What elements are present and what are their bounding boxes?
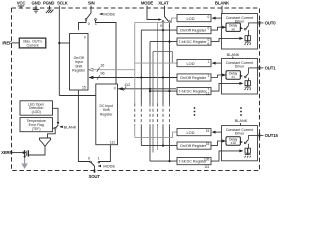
switch XLAT latch select <box>165 17 169 21</box>
block constant current driver 0 <box>222 14 258 50</box>
switch driver 15 output <box>244 142 246 144</box>
junction SCLK tap <box>58 42 60 44</box>
block LOD 0 <box>177 15 211 22</box>
svg-text:BLANK: BLANK <box>64 124 77 129</box>
svg-text:Driver: Driver <box>235 65 245 69</box>
ellipsis channels 2-14 left <box>194 107 196 116</box>
svg-text:1: 1 <box>98 157 100 161</box>
svg-text:16: 16 <box>100 64 104 68</box>
svg-text:Driver: Driver <box>235 132 245 136</box>
wire DC 15 to current sink <box>211 151 242 161</box>
wire DC 0 to current sink <box>211 38 242 41</box>
svg-text:0: 0 <box>208 27 210 31</box>
wire DC 1 to current sink <box>211 83 242 91</box>
wire delay 1 output <box>239 75 242 77</box>
transistor XERR open drain NMOS <box>27 150 29 156</box>
ground gray arrow under XERR transistor <box>24 158 26 165</box>
block constant current driver 15 <box>222 126 258 161</box>
switch SOUT select <box>90 161 92 163</box>
register On/Off 15 <box>177 142 211 149</box>
svg-text:x15: x15 <box>231 141 236 145</box>
svg-text:15: 15 <box>206 129 210 133</box>
svg-text:LOD: LOD <box>187 130 195 135</box>
wire XLAT vertical <box>164 6 166 17</box>
svg-text:On/Off Register: On/Off Register <box>180 28 207 32</box>
wire delay 15 output <box>239 141 242 143</box>
svg-text:96: 96 <box>100 72 104 76</box>
svg-text:105: 105 <box>204 158 210 162</box>
wire funnel output to XERR transistor gate <box>28 147 45 156</box>
svg-text:(LOD): (LOD) <box>32 110 41 114</box>
bus LOD status 16 into shift register (gray) <box>90 69 135 71</box>
switch driver 1 output <box>244 76 246 78</box>
block temperature error flag <box>20 118 53 132</box>
bus On/Off data 96 out of shift register / On/Off register 1 tap <box>89 77 177 79</box>
wire XERR <box>12 152 25 154</box>
wire MODE to latch select switch <box>147 6 159 20</box>
block LOD 1 <box>177 60 211 67</box>
svg-text:x1: x1 <box>232 75 236 79</box>
wire SCLK tap to On/Off input shift register clock <box>59 42 69 44</box>
wire On/Off 15 to delay <box>211 141 225 146</box>
wire On/Off register 15 latch+data tap <box>141 145 177 147</box>
svg-text:(TEF): (TEF) <box>32 127 41 131</box>
bus vertical auxiliary A with top corner <box>153 52 172 153</box>
svg-text:0: 0 <box>114 86 116 90</box>
svg-text:0: 0 <box>88 156 90 160</box>
switch driver 0 output <box>244 28 246 30</box>
wire BLANK to driver 0 <box>221 6 223 14</box>
register On/Off 1 <box>177 74 211 81</box>
wire switch to OR funnel <box>48 129 56 138</box>
svg-text:112: 112 <box>124 83 130 87</box>
bus vertical On/Off data <box>140 30 142 146</box>
svg-text:7-bit DC Register: 7-bit DC Register <box>178 40 207 44</box>
svg-text:111: 111 <box>204 165 209 169</box>
wire LOD block output <box>53 108 59 123</box>
wire On/Off 0 to delay <box>211 27 225 30</box>
svg-text:SOUT: SOUT <box>89 174 101 179</box>
block delay x1 <box>226 71 240 79</box>
svg-text:On/Off Register: On/Off Register <box>180 144 207 148</box>
wire IREF to max current block <box>12 42 21 44</box>
block delay x15 <box>226 137 240 145</box>
svg-text:0: 0 <box>88 22 90 26</box>
wire On/Off shift register serial out to SOUT switch <box>78 90 89 162</box>
wire latch line 0 (On/Off registers latch) <box>162 22 164 145</box>
wire DC register 1 latch+data tap <box>150 90 177 92</box>
svg-text:6: 6 <box>208 42 210 46</box>
wire SCLK vertical <box>58 6 60 96</box>
register DC input shift register <box>96 84 118 145</box>
wire latch line 1 (DC registers latch) <box>169 22 171 161</box>
wire On/Off 1 to delay <box>211 75 225 78</box>
svg-text:13: 13 <box>206 91 210 95</box>
svg-text:0: 0 <box>208 15 210 19</box>
svg-text:LOD: LOD <box>187 61 195 66</box>
switch TEF/LOD blanking <box>53 127 55 129</box>
svg-text:On/Off Register: On/Off Register <box>180 76 207 80</box>
register On/Off 0 <box>177 27 211 34</box>
pin PGND chassis ground symbol <box>46 6 53 13</box>
register DC 15 <box>177 158 211 165</box>
block LED open detection <box>20 101 53 115</box>
svg-text:SCLK: SCLK <box>57 1 68 6</box>
label MODE at SIN switch <box>100 13 102 15</box>
block max OUTn current <box>19 38 46 48</box>
wire SCLK to DC input shift register clock <box>59 95 96 97</box>
svg-text:IREF: IREF <box>2 40 12 45</box>
pin OUT15 <box>248 134 263 136</box>
bus DC data 112 out of shift register <box>118 88 177 90</box>
svg-text:VCC: VCC <box>17 1 26 6</box>
block LOD 15 <box>177 129 211 136</box>
svg-text:BLANK: BLANK <box>235 118 248 123</box>
svg-text:111: 111 <box>110 140 115 144</box>
svg-text:MODE: MODE <box>103 12 115 17</box>
wire DC register 0 latch+data tap <box>150 41 177 43</box>
switch SIN mode select <box>87 13 91 19</box>
wire delay 0 output <box>239 27 242 29</box>
svg-text:1: 1 <box>208 60 210 64</box>
transistor current sink 15 <box>245 148 250 153</box>
svg-text:0: 0 <box>160 24 162 28</box>
transistor current sink 1 <box>245 81 250 86</box>
svg-text:MODE: MODE <box>103 163 115 168</box>
wire LOD 0 gray tap <box>135 18 177 22</box>
svg-text:15: 15 <box>206 142 210 146</box>
svg-text:1: 1 <box>208 74 210 78</box>
bus vertical auxiliary B (gray) <box>157 22 159 150</box>
svg-text:SIN: SIN <box>88 1 95 6</box>
svg-text:0: 0 <box>84 36 86 40</box>
wire SIN vertical <box>90 6 92 13</box>
bus vertical DC data <box>149 42 151 162</box>
register On/Off input shift register <box>70 34 89 91</box>
svg-text:BLANK: BLANK <box>227 52 240 57</box>
wire driver to LOD 1 <box>213 62 222 64</box>
bus vertical LOD return (gray) <box>134 22 136 137</box>
wire SIN contact0 to On/Off input shift register <box>79 20 87 30</box>
wire On/Off register 0 latch+data tap <box>141 29 177 31</box>
wire LOD 15 gray tap <box>135 132 177 137</box>
gate error OR funnel <box>40 138 51 147</box>
wire DC shift register bit 111 to SOUT switch <box>99 145 110 162</box>
pin OUT0 <box>248 22 263 24</box>
wire driver to LOD 15 <box>213 131 222 133</box>
ground under sink 15 <box>245 153 251 157</box>
label BLANK at TEF switch <box>60 126 62 128</box>
block delay x0 <box>226 23 240 31</box>
junction On/Off latch dot 1 <box>162 76 164 78</box>
break mask over bus verticals in channel gap <box>130 104 174 126</box>
pin OUT1 <box>248 67 263 69</box>
svg-text:15: 15 <box>82 85 86 89</box>
svg-text:Register: Register <box>72 69 86 73</box>
wire DC register 15 latch+data tap <box>150 160 177 162</box>
label MODE at SOUT switch <box>98 165 100 167</box>
svg-text:MODE: MODE <box>141 1 154 6</box>
wire SIN contact1 to DC input shift register <box>96 20 117 84</box>
register DC 0 <box>177 38 211 45</box>
svg-text:OUT1: OUT1 <box>265 66 277 71</box>
chip boundary dashed border <box>12 8 260 171</box>
ground under sink 1 <box>245 86 251 90</box>
wire driver to LOD 0 <box>213 17 222 19</box>
pin GND ground symbol <box>33 6 39 13</box>
svg-text:x0: x0 <box>232 27 236 31</box>
svg-text:GND: GND <box>31 1 40 6</box>
svg-text:BLANK: BLANK <box>215 1 230 6</box>
svg-text:LOD: LOD <box>187 16 195 21</box>
svg-text:7-bit DC Register: 7-bit DC Register <box>178 89 207 93</box>
pin SOUT <box>94 166 96 172</box>
svg-text:Current: Current <box>27 43 39 47</box>
svg-text:PGND: PGND <box>43 1 54 6</box>
svg-text:Register: Register <box>100 112 113 116</box>
transistor current sink 0 <box>245 36 250 41</box>
ground under sink 0 <box>245 41 251 45</box>
block constant current driver 1 <box>222 59 258 95</box>
svg-text:OUT15: OUT15 <box>265 133 279 138</box>
pin VCC <box>18 6 24 9</box>
svg-text:XLAT: XLAT <box>158 1 169 6</box>
svg-text:OUT0: OUT0 <box>265 21 277 26</box>
wire LOD 1 gray tap <box>135 62 177 64</box>
ellipsis channels 2-14 right <box>240 107 242 116</box>
register DC 1 <box>177 88 211 95</box>
